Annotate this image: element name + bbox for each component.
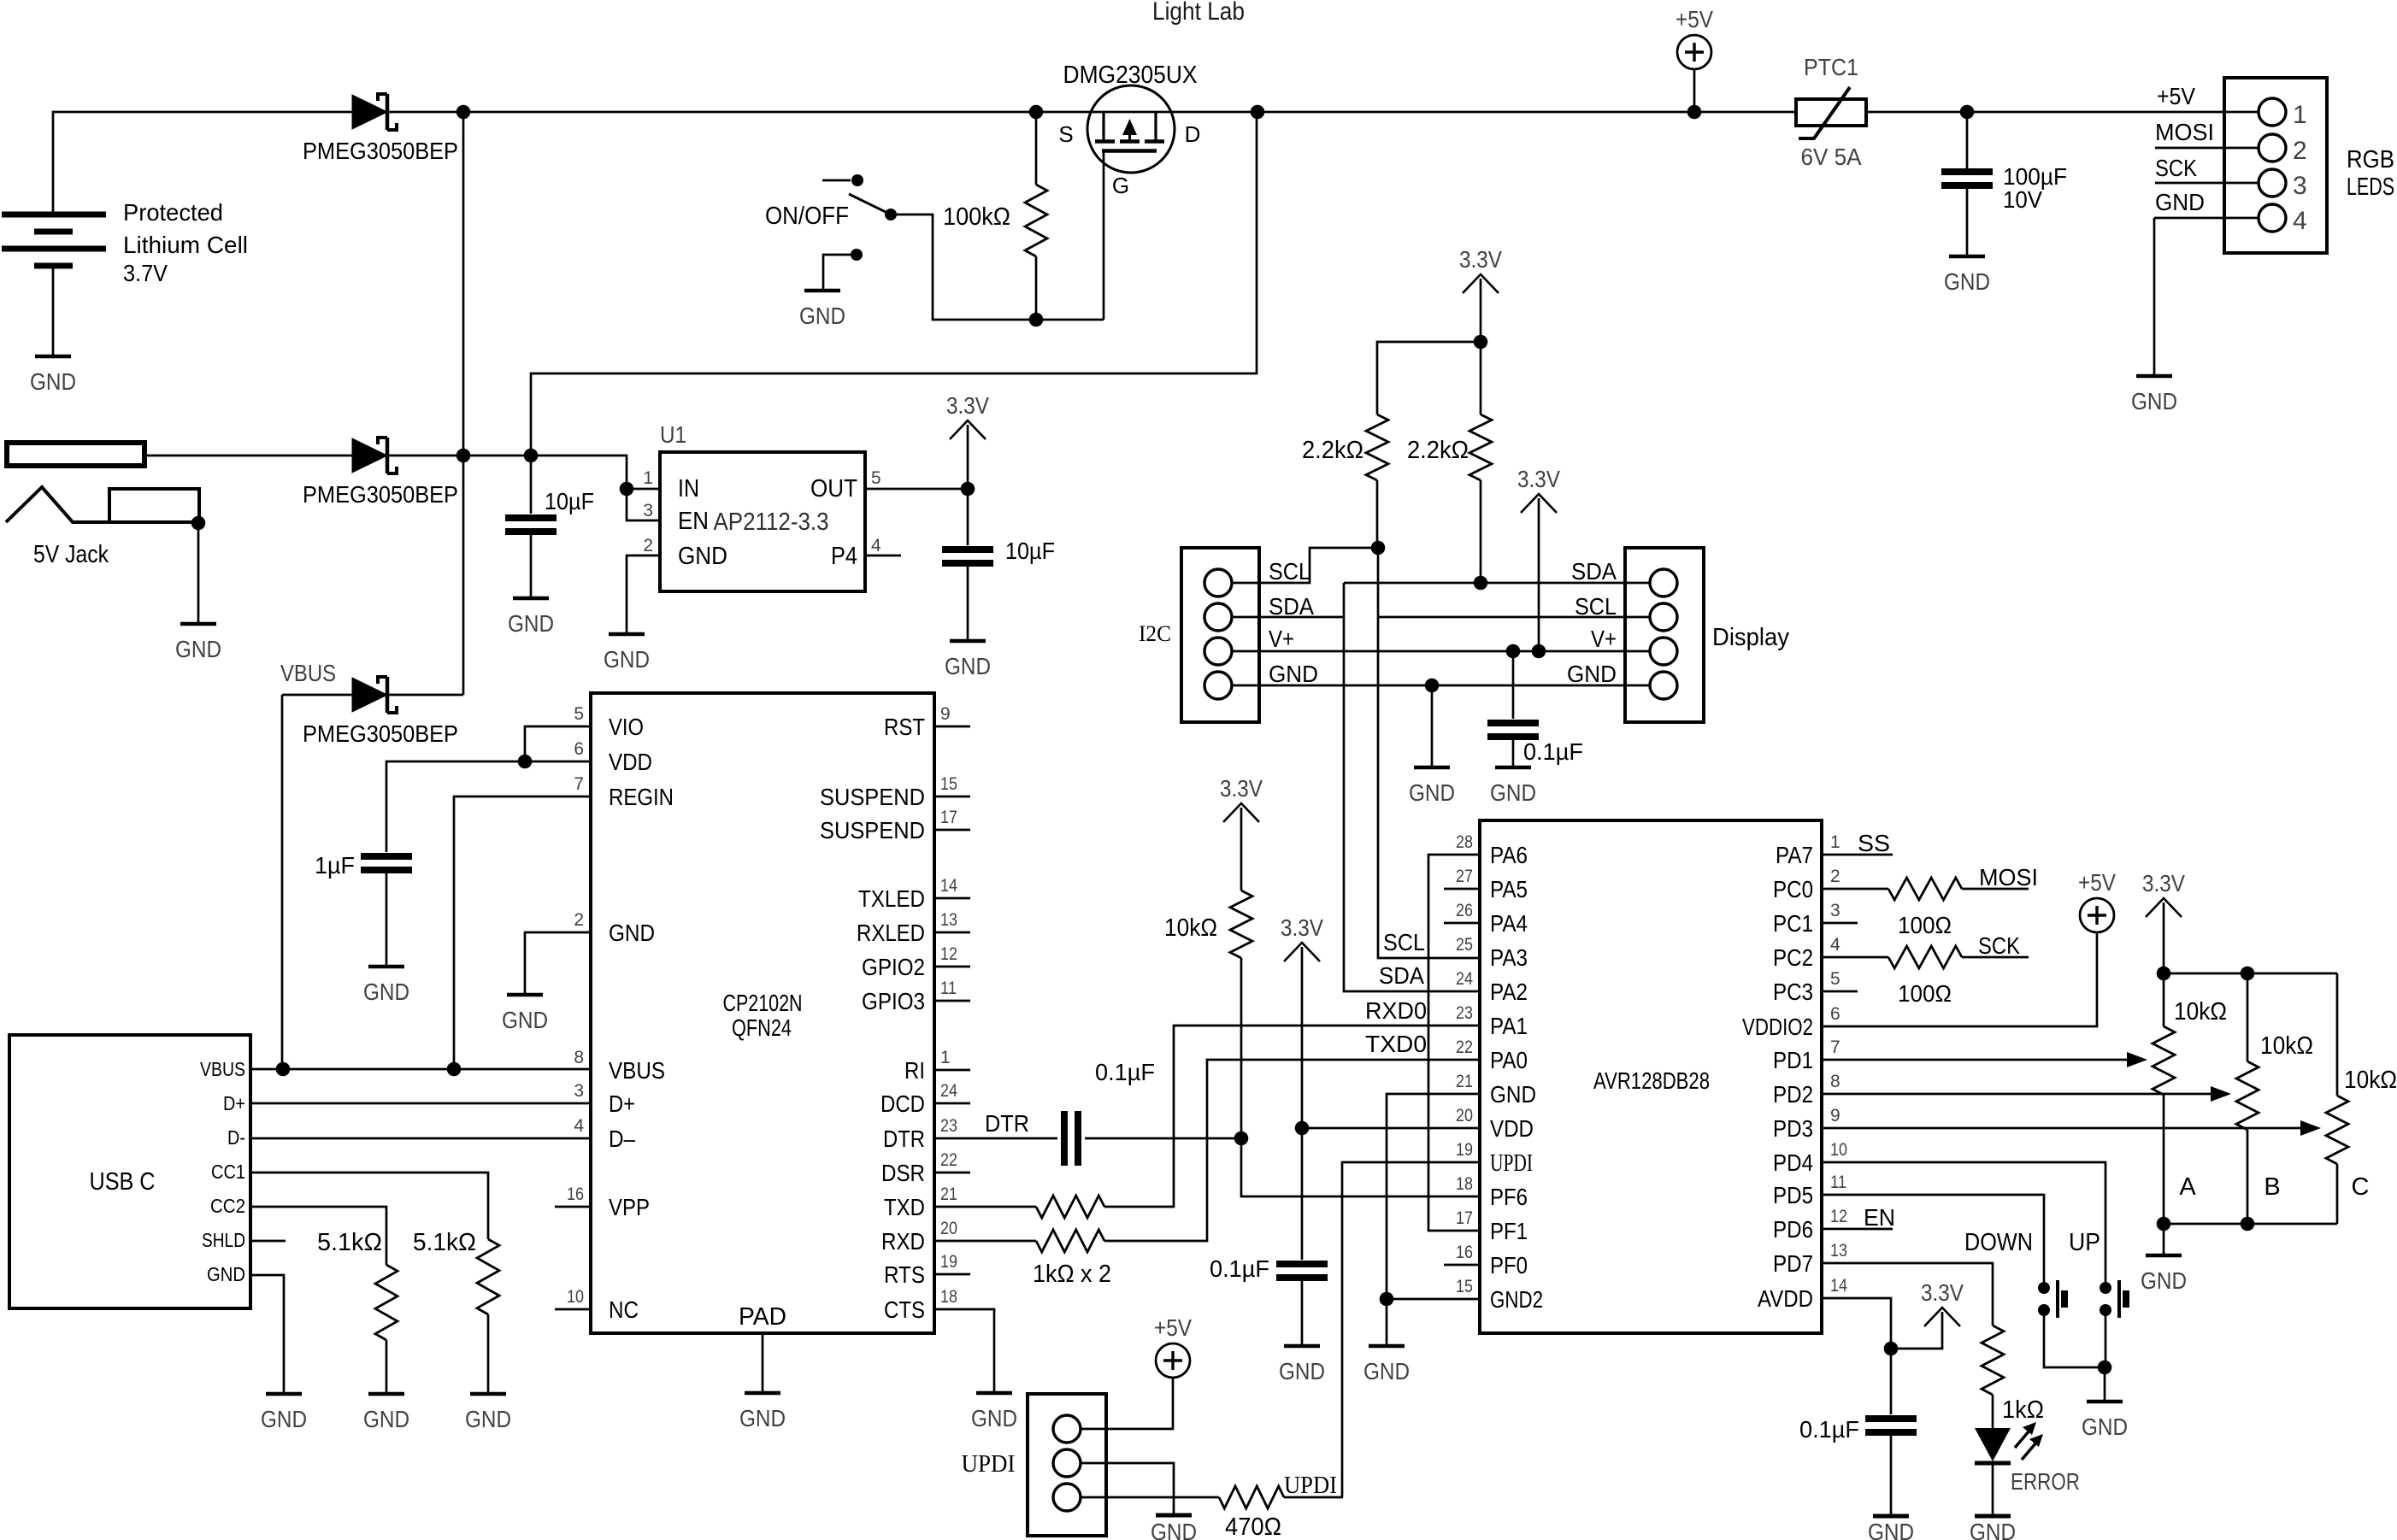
op-amp U2 CP2102N box (591, 693, 934, 1333)
junction pot B top (2241, 967, 2255, 981)
connector J5 pin1 circle (1650, 569, 1677, 597)
ground output cap (950, 639, 986, 644)
svg-text:GND: GND (2155, 189, 2205, 215)
U3 PD7 wire to LED resistor (1822, 1263, 1993, 1325)
svg-text:14: 14 (940, 876, 957, 896)
wire jack ground down (197, 523, 200, 624)
svg-text:24: 24 (940, 1081, 957, 1101)
connector J5 pin3 circle (1650, 638, 1677, 665)
ground U2 gnd pin (507, 993, 543, 997)
svg-text:3.3V: 3.3V (1459, 246, 1502, 273)
wire pullup top to right resistor (1480, 342, 1482, 414)
svg-text:100Ω: 100Ω (1898, 980, 1952, 1007)
wire AVR UPDI down (1342, 1162, 1480, 1497)
wire R11 to LED (1992, 1395, 1994, 1428)
wire D+ row (250, 1102, 591, 1105)
ground C8 (1873, 1514, 1909, 1519)
pot A wire bottom (2163, 1095, 2165, 1224)
svg-text:OUT: OUT (810, 475, 857, 503)
svg-text:SDA: SDA (1571, 558, 1617, 585)
fuse PTC1 body (1796, 99, 1866, 126)
pot C wire bottom (2336, 1164, 2339, 1224)
wire input cap to ground (530, 535, 533, 598)
U2 pin 15 stub wire (934, 796, 970, 798)
svg-text:3.3V: 3.3V (1517, 466, 1560, 492)
U2 pin 2 GND wire (525, 932, 591, 995)
junction regulator output (961, 482, 975, 497)
svg-text:26: 26 (1456, 901, 1473, 920)
svg-text:PF6: PF6 (1490, 1184, 1528, 1210)
power 3.3V arrow AVR VDD (1284, 943, 1320, 961)
wire CC1 to pullup (250, 1173, 488, 1239)
svg-text:CC2: CC2 (210, 1195, 245, 1217)
wire AVDD to cap (1890, 1349, 1893, 1414)
wire DOWN button to ground rail (2044, 1310, 2105, 1367)
wire 3.3V to V+ row (1538, 498, 1540, 651)
wire REGIN to VBUS node (454, 796, 591, 1069)
svg-text:2: 2 (1830, 867, 1840, 886)
U2 DTR wire (934, 1137, 1057, 1140)
svg-text:RST: RST (884, 714, 925, 740)
U2 pin 24 stub wire (934, 1102, 970, 1105)
svg-text:PMEG3050BEP: PMEG3050BEP (303, 720, 458, 747)
wire VBUS row (250, 1068, 591, 1071)
svg-text:PMEG3050BEP: PMEG3050BEP (303, 138, 458, 164)
op-amp U1 AP2112-3.3 box (660, 452, 865, 591)
svg-text:10µF: 10µF (1005, 538, 1055, 564)
junction AVR VDD (1295, 1121, 1310, 1136)
svg-text:PAD: PAD (739, 1303, 786, 1331)
svg-text:GND: GND (678, 543, 727, 570)
svg-text:PA2: PA2 (1490, 979, 1528, 1005)
resistor R5 1k RXD (1036, 1230, 1104, 1252)
wire display SCL row (1378, 616, 1650, 619)
svg-text:VPP: VPP (609, 1194, 650, 1220)
svg-text:100kΩ: 100kΩ (943, 203, 1010, 231)
junction DTR PF6 (1234, 1131, 1249, 1146)
connector J6 UPDI box (1028, 1394, 1106, 1536)
wire AVR GND to GND2 (1387, 1094, 1480, 1346)
svg-text:PC2: PC2 (1773, 944, 1813, 971)
svg-text:4: 4 (2293, 207, 2307, 235)
power 3.3V arrow AVDD (1924, 1308, 1960, 1326)
svg-text:16: 16 (1456, 1243, 1473, 1262)
U3 pin 16 PF0 stub (1444, 1264, 1480, 1267)
svg-text:17: 17 (1456, 1208, 1473, 1228)
power 3.3V arrow I2C pullups (1463, 274, 1499, 293)
svg-text:D: D (1185, 121, 1201, 147)
svg-text:GND: GND (30, 368, 76, 395)
power 3.3V arrow regulator output (950, 420, 986, 439)
button SW2 DOWN body (2056, 1280, 2059, 1318)
connector J6 pin1 circle (1053, 1415, 1081, 1443)
svg-text:2.2kΩ: 2.2kΩ (1302, 437, 1363, 464)
svg-text:DOWN: DOWN (1964, 1229, 2033, 1256)
svg-text:P4: P4 (831, 543, 857, 570)
svg-text:GND: GND (363, 979, 409, 1005)
svg-text:ERROR: ERROR (2011, 1468, 2080, 1495)
svg-text:QFN24: QFN24 (732, 1014, 792, 1041)
svg-text:RGB: RGB (2347, 146, 2394, 173)
wire +5V to UPDI pin1 (1081, 1378, 1173, 1429)
connector J1 5V jack barrel (7, 443, 144, 466)
junction rail +5V (1687, 105, 1702, 120)
svg-text:2: 2 (574, 910, 584, 930)
svg-text:GND: GND (1269, 661, 1318, 687)
ground input cap (513, 597, 549, 601)
svg-text:9: 9 (1830, 1106, 1840, 1126)
wire RXD to AVR TXD0 (1104, 1060, 1480, 1241)
connector J3 USB C box (9, 1035, 250, 1308)
junction SCL node (1371, 541, 1386, 555)
wire rail diode1 to mosfet (388, 111, 1796, 114)
svg-text:10V: 10V (2003, 186, 2042, 213)
svg-text:AVR128DB28: AVR128DB28 (1593, 1067, 1710, 1094)
diode D2 PMEG3050BEP 5V jack (352, 438, 387, 473)
ground C4 (368, 965, 404, 969)
junction bus diode2 (456, 449, 471, 463)
svg-text:GND: GND (502, 1007, 548, 1033)
junction buttons ground (2098, 1361, 2112, 1375)
wire GND2 row (1387, 1298, 1480, 1301)
svg-text:5V Jack: 5V Jack (33, 541, 109, 568)
button SW3 UP contacts (2100, 1282, 2111, 1294)
svg-text:VDD: VDD (1490, 1115, 1534, 1142)
wire SDA vertical to AVR (1344, 583, 1480, 991)
svg-text:USB C: USB C (90, 1168, 156, 1196)
svg-text:20: 20 (940, 1219, 957, 1238)
svg-text:10: 10 (567, 1287, 584, 1307)
svg-text:17: 17 (940, 808, 957, 827)
svg-text:20: 20 (1456, 1106, 1473, 1126)
svg-text:2.2kΩ: 2.2kΩ (1407, 437, 1469, 464)
svg-text:GND: GND (1868, 1519, 1914, 1540)
svg-text:VBUS: VBUS (280, 660, 336, 686)
pot C wiper arrow (2300, 1120, 2321, 1136)
LED D4 emission arrows (2015, 1431, 2029, 1448)
svg-text:6V 5A: 6V 5A (1801, 144, 1862, 170)
svg-text:23: 23 (940, 1116, 957, 1136)
U3 PD5 wire to DOWN button (1822, 1195, 2044, 1282)
switch SW1 lever (849, 194, 891, 215)
svg-text:VDDIO2: VDDIO2 (1742, 1014, 1813, 1040)
svg-text:13: 13 (1830, 1241, 1847, 1261)
svg-text:11: 11 (1830, 1173, 1846, 1192)
svg-text:GND: GND (609, 920, 655, 946)
capacitor C8 0.1uF AVDD (1865, 1415, 1917, 1422)
svg-text:3.3V: 3.3V (946, 392, 989, 419)
junction AVDD (1884, 1342, 1899, 1356)
connector J4 pin3 circle (1204, 638, 1232, 665)
U2 pin 17 stub wire (934, 829, 970, 832)
junction GND2 (1380, 1292, 1394, 1307)
svg-text:PTC1: PTC1 (1804, 54, 1858, 80)
svg-text:I2C: I2C (1139, 621, 1171, 646)
svg-text:19: 19 (940, 1252, 957, 1272)
svg-text:19: 19 (1456, 1140, 1473, 1160)
svg-text:3.3V: 3.3V (1921, 1279, 1964, 1306)
ground USB (266, 1392, 302, 1396)
svg-text:GND: GND (1567, 661, 1617, 687)
svg-text:3.3V: 3.3V (1220, 775, 1263, 802)
svg-text:3.3V: 3.3V (2142, 870, 2185, 896)
svg-text:CP2102N: CP2102N (723, 990, 803, 1016)
wire UPDI pin2 to ground (1081, 1463, 1174, 1515)
wire rail to gate resistor (1035, 112, 1038, 185)
junction pot B bottom (2241, 1217, 2255, 1231)
wire UPDI pin3 to resistor (1081, 1496, 1219, 1499)
power +5V symbol VDDIO2 (2080, 898, 2114, 932)
svg-text:SCL: SCL (1269, 558, 1310, 585)
wire LED to ground (1992, 1463, 1994, 1516)
wire connector ground down (2153, 218, 2156, 376)
svg-text:GND: GND (971, 1405, 1017, 1431)
svg-text:GND: GND (1490, 779, 1536, 806)
connector J5 Display box (1625, 548, 1704, 722)
resistor R6 10k PF6 pullup (1230, 890, 1252, 958)
capacitor C4 1uF (361, 853, 412, 860)
svg-text:SDA: SDA (1269, 593, 1314, 620)
ground switch (804, 289, 840, 293)
svg-text:4: 4 (574, 1116, 584, 1136)
svg-text:10kΩ: 10kΩ (2174, 998, 2227, 1026)
svg-text:GND: GND (261, 1406, 307, 1432)
svg-text:VBUS: VBUS (200, 1058, 245, 1080)
resistor R3 5.1k CC1 (477, 1239, 499, 1314)
svg-text:G: G (1112, 173, 1129, 198)
wire D- row (250, 1137, 591, 1140)
wire jack to diode2 (144, 455, 352, 457)
wire SDA row to display (1344, 582, 1650, 585)
U3 PD2 wire to pot B wiper (1822, 1093, 2211, 1096)
wire R10 to SCK label (1962, 956, 2029, 959)
svg-text:18: 18 (1456, 1174, 1473, 1194)
svg-text:Lithium Cell: Lithium Cell (123, 232, 248, 258)
svg-text:5: 5 (1830, 969, 1840, 989)
svg-text:PD4: PD4 (1773, 1149, 1813, 1176)
ground CTS (976, 1391, 1012, 1396)
ground U1 (609, 632, 645, 637)
connector J1 inner sleeve (73, 489, 199, 522)
svg-text:12: 12 (940, 944, 957, 964)
svg-text:+5V: +5V (2157, 83, 2195, 109)
svg-text:GND: GND (1944, 268, 1990, 295)
U2 pin 13 stub wire (934, 932, 970, 934)
svg-text:25: 25 (1456, 935, 1473, 955)
svg-text:RXD: RXD (881, 1228, 925, 1255)
svg-text:27: 27 (1456, 867, 1473, 886)
svg-text:5.1kΩ: 5.1kΩ (317, 1229, 382, 1256)
wire UP button to ground rail (2105, 1310, 2107, 1367)
pot A wire top (2163, 973, 2165, 1026)
U1 pin5 OUT wire (865, 488, 968, 491)
wire 3.3V to pot rail (2163, 902, 2165, 973)
capacitor C7 0.1uF display (1487, 720, 1539, 726)
wire bulk cap to ground (1966, 189, 1969, 256)
svg-text:6: 6 (574, 739, 584, 759)
wire vdd vio riser (525, 726, 591, 761)
resistor R1 100k gate pulldown (1025, 185, 1047, 256)
wire diode3 cathode to bus (388, 694, 463, 697)
svg-text:3.7V: 3.7V (123, 260, 168, 286)
svg-text:DTR: DTR (985, 1110, 1029, 1137)
wire diode2 cathode to U1 input node (388, 456, 627, 489)
capacitor C2 10uF input (505, 514, 557, 521)
svg-text:100Ω: 100Ω (1898, 912, 1952, 938)
svg-text:1: 1 (1830, 832, 1840, 852)
U2 pin 9 stub wire (934, 726, 970, 728)
svg-text:+5V: +5V (2078, 869, 2116, 896)
U3 pin 26 PA4 stub (1444, 922, 1480, 925)
wire mosfet drain to regulator input (531, 112, 1257, 456)
connector J4 pin2 circle (1204, 603, 1232, 631)
svg-text:GND: GND (1409, 779, 1455, 806)
svg-text:11: 11 (940, 979, 957, 998)
wire pot bottom rail (2164, 1223, 2337, 1226)
wire output node to cap (967, 489, 969, 545)
svg-text:15: 15 (1456, 1277, 1473, 1296)
battery BT1 Protected Lithium Cell 3.7V (2, 212, 106, 218)
svg-text:24: 24 (1456, 969, 1473, 989)
svg-text:UPDI: UPDI (962, 1450, 1016, 1478)
wire DTR cap to PF6 node (1085, 1137, 1241, 1140)
wire C6 to ground (1301, 1281, 1304, 1346)
svg-text:16: 16 (567, 1184, 584, 1204)
connector J2 pin4 circle (2259, 204, 2286, 232)
resistor R7 2.2k SCL pullup (1366, 414, 1388, 480)
svg-text:7: 7 (1830, 1037, 1840, 1057)
svg-text:GND: GND (1151, 1519, 1197, 1540)
svg-text:RTS: RTS (884, 1261, 925, 1288)
power 3.3V arrow display V+ (1521, 494, 1557, 513)
U2 pin 11 stub wire (934, 1000, 970, 1002)
U3 pin 27 PA5 stub (1444, 888, 1480, 890)
U3 PC3 stub (1822, 990, 1858, 993)
svg-text:1: 1 (940, 1048, 951, 1067)
svg-text:PC0: PC0 (1773, 876, 1813, 902)
connector J2 pin3 circle (2259, 169, 2286, 197)
power +5V symbol top (1677, 35, 1711, 69)
svg-text:1: 1 (643, 468, 653, 488)
connector J6 pin3 circle (1053, 1484, 1081, 1511)
ground display (1414, 766, 1450, 770)
svg-text:10kΩ: 10kΩ (2260, 1032, 2313, 1060)
wire 10k to PF6 (1241, 958, 1480, 1196)
wire battery negative (52, 266, 55, 356)
junction input cap (524, 449, 539, 463)
svg-text:EN: EN (678, 508, 709, 535)
junction bulk cap (1960, 105, 1975, 120)
svg-text:3: 3 (574, 1081, 584, 1101)
U2 pin 14 stub wire (934, 897, 970, 900)
U1 pin3 EN wire (627, 489, 660, 520)
connector J6 pin2 circle (1053, 1449, 1081, 1477)
wire 3.3V to 10k (1240, 808, 1243, 890)
wire USB GND down (250, 1275, 284, 1394)
svg-text:SUSPEND: SUSPEND (820, 817, 925, 843)
svg-text:PF1: PF1 (1490, 1218, 1528, 1244)
svg-text:PC3: PC3 (1773, 979, 1813, 1005)
svg-text:TXLED: TXLED (858, 885, 925, 912)
svg-text:SCL: SCL (1575, 593, 1617, 620)
svg-text:GND: GND (1363, 1358, 1410, 1384)
ground jack (180, 622, 216, 626)
wire AVDD to 3.3V arrow (1891, 1312, 1942, 1349)
U3 AVDD wire (1822, 1298, 1891, 1349)
resistor R8 2.2k SDA pullup (1469, 414, 1492, 480)
capacitor C5 0.1uF DTR series (1061, 1111, 1068, 1166)
junction V+ cap (1506, 644, 1521, 659)
svg-text:13: 13 (940, 910, 957, 930)
ground bulk cap (1949, 255, 1985, 259)
svg-text:10µF: 10µF (545, 488, 594, 514)
ground C6 (1284, 1344, 1320, 1349)
svg-text:+5V: +5V (1154, 1314, 1192, 1341)
U2 pin 19 stub wire (934, 1273, 970, 1276)
connector J2 pin1 circle (2259, 98, 2286, 126)
svg-text:10: 10 (1830, 1140, 1847, 1160)
svg-text:CTS: CTS (884, 1296, 925, 1323)
wire diode OR bus vertical (462, 112, 465, 695)
capacitor C1 100uF 10V (1941, 168, 1993, 175)
svg-text:+5V: +5V (1676, 6, 1713, 32)
svg-text:GND: GND (604, 646, 650, 673)
switch SW1 ground contact (851, 249, 863, 261)
svg-text:PD2: PD2 (1773, 1081, 1813, 1108)
svg-text:CC1: CC1 (211, 1161, 245, 1183)
svg-text:PD1: PD1 (1773, 1047, 1813, 1073)
svg-text:V+: V+ (1269, 626, 1294, 652)
wire SCK to pin3 (2155, 182, 2259, 185)
svg-text:LEDS: LEDS (2347, 173, 2394, 201)
ground UPDI header (1156, 1514, 1192, 1518)
svg-text:GND: GND (1279, 1358, 1325, 1384)
svg-text:U1: U1 (660, 421, 686, 448)
U2 pin 12 stub wire (934, 966, 970, 968)
U3 PD6 EN stub (1822, 1228, 1893, 1231)
ground R3 (470, 1392, 506, 1396)
wire pot rail to ground (2163, 1224, 2165, 1255)
resistor RV1 10k pot A (2153, 1026, 2175, 1095)
U2 pin 22 stub wire (934, 1172, 970, 1174)
svg-text:DCD: DCD (880, 1090, 925, 1117)
svg-text:GND: GND (945, 653, 991, 679)
svg-text:PA1: PA1 (1490, 1013, 1528, 1039)
U3 PD4 wire to UP button (1822, 1162, 2105, 1282)
U2 RXD wire (934, 1240, 1036, 1243)
wire rail to bulk cap (1966, 112, 1969, 168)
svg-text:VBUS: VBUS (609, 1057, 665, 1084)
junction vio vdd (518, 755, 533, 769)
ground U2 PAD (745, 1391, 780, 1396)
transistor Q1 body diode arrow (1122, 119, 1137, 135)
junction pullup top (1474, 335, 1488, 350)
U2 pin 1 stub wire (934, 1069, 970, 1072)
switch SW1 moving contact (885, 209, 897, 220)
U1 pin1 IN wire (627, 488, 660, 491)
svg-text:GND: GND (2082, 1414, 2128, 1440)
wire PA6 to PF1 loop (1428, 855, 1480, 1231)
junction SDA node (1474, 576, 1488, 591)
wire R12 to UPDI net (1284, 1496, 1343, 1499)
svg-text:Protected: Protected (123, 199, 223, 226)
svg-text:6: 6 (1830, 1004, 1840, 1024)
wire V+ cap down (1512, 651, 1515, 719)
wire vdd row to cap (386, 761, 591, 852)
U2 PAD wire to ground (762, 1333, 764, 1393)
U3 PD1 wire to pot A wiper (1822, 1059, 2128, 1061)
pot A wiper arrow (2127, 1052, 2147, 1067)
